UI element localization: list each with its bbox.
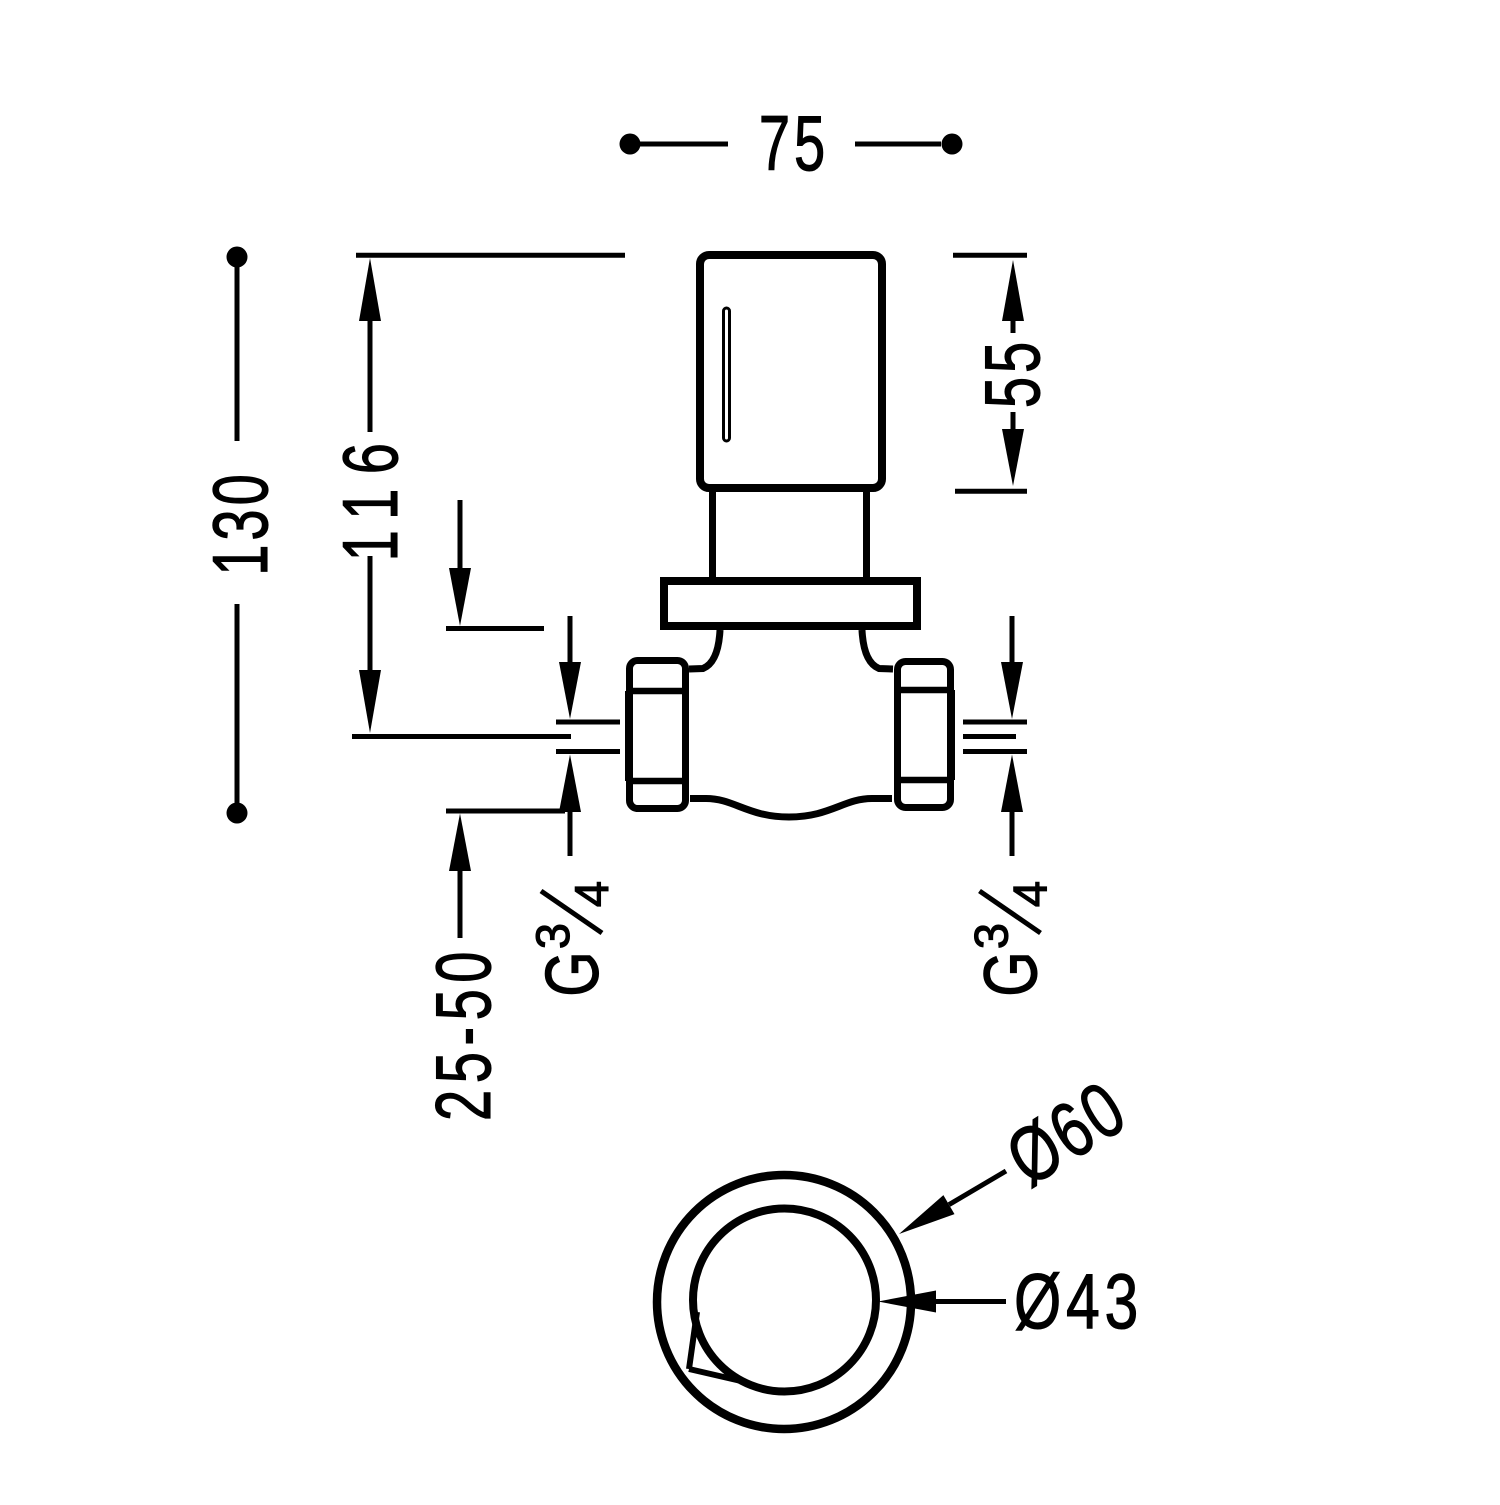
left G3/4 down arrow shaft <box>568 616 573 664</box>
dim 75 left dot <box>620 134 641 155</box>
dim 55 upper shaft stub <box>1011 321 1016 333</box>
svg-text:4: 4 <box>1004 881 1057 907</box>
left G3/4 label fraction slash <box>541 891 602 933</box>
right G3/4 up arrow shaft <box>1010 812 1015 856</box>
dim 25-50 up arrowhead <box>449 814 471 872</box>
right pipe centerline <box>963 734 1016 739</box>
svg-text:55: 55 <box>969 338 1056 408</box>
left G3/4 down arrowhead <box>559 662 581 719</box>
leader arrowhead for D43 <box>878 1291 936 1313</box>
left G3/4 up arrowhead <box>559 755 581 813</box>
left fitting upper chamfer line <box>626 688 689 695</box>
dim 25-50 down arrowhead <box>449 568 471 626</box>
flange rectangle <box>664 581 917 626</box>
right pipe break line lower <box>963 749 1027 754</box>
dim 130 bottom dot <box>227 803 248 824</box>
knob indicator notch bottom line <box>689 1369 741 1381</box>
dim 55 lower shaft stub <box>1011 412 1016 430</box>
right G3/4 up arrowhead <box>1001 755 1023 813</box>
dim 75 line right segment <box>855 142 941 147</box>
left fitting band edge <box>625 691 632 781</box>
dim 130 line lower segment <box>235 604 240 803</box>
left pipe centerline <box>352 734 571 739</box>
dim 130 top dot <box>227 247 248 268</box>
left pipe break line upper <box>556 720 620 725</box>
svg-text:G: G <box>531 951 615 997</box>
svg-text:4: 4 <box>565 881 618 907</box>
knob outer circle <box>657 1175 911 1429</box>
left fitting outline <box>630 661 686 809</box>
dim 116 upper shaft <box>368 318 373 432</box>
dim 55 top extension line <box>953 253 1027 258</box>
left pipe break line lower <box>556 749 620 754</box>
svg-text:116: 116 <box>327 429 414 562</box>
left G3/4 up arrow shaft <box>568 812 573 856</box>
right fitting outline <box>898 662 951 808</box>
dim 130 line upper segment <box>235 267 240 441</box>
dim 75 right dot <box>942 134 963 155</box>
svg-text:3: 3 <box>526 923 579 949</box>
svg-text:G: G <box>970 951 1054 997</box>
stem right line <box>863 492 870 577</box>
dim 55 up arrowhead <box>1002 260 1024 321</box>
right fitting lower chamfer line <box>894 777 954 784</box>
dim 116 lower shaft <box>368 556 373 673</box>
leader arrowhead for D60 <box>899 1195 955 1234</box>
handle slot <box>724 308 730 441</box>
dim 116 up arrowhead <box>359 258 381 321</box>
body upper left curve <box>689 630 720 669</box>
dim 75 line left segment <box>640 142 728 147</box>
leader line for D60 <box>949 1171 1006 1205</box>
dim 25-50 down arrow shaft <box>458 500 463 572</box>
knob inner circle <box>693 1209 876 1392</box>
knob indicator notch left line <box>689 1312 697 1369</box>
right pipe break line upper <box>963 720 1027 725</box>
right G3/4 down arrowhead <box>1001 662 1023 719</box>
right G3/4 label fraction slash <box>980 891 1041 933</box>
body bottom arc <box>690 799 892 818</box>
right fitting upper chamfer line <box>894 687 954 694</box>
dim 25-50 up arrow shaft <box>458 871 463 938</box>
svg-text:75: 75 <box>759 100 829 187</box>
stem left line <box>709 492 716 577</box>
dim 55 bottom extension line <box>955 489 1027 494</box>
leader line for D43 <box>936 1299 1006 1304</box>
svg-text:130: 130 <box>197 470 284 576</box>
dim 55 down arrowhead <box>1002 429 1024 486</box>
dim 116 top extension line <box>356 253 625 258</box>
left fitting lower chamfer line <box>626 778 689 785</box>
dim 116 down arrowhead <box>359 670 381 733</box>
svg-text:Ø43: Ø43 <box>1014 1258 1143 1345</box>
right fitting band edge <box>948 690 955 780</box>
right G3/4 down arrow shaft <box>1010 616 1015 664</box>
svg-text:25-50: 25-50 <box>420 945 507 1121</box>
valve handle outline <box>700 255 882 488</box>
dim 25-50 top reference line <box>446 626 544 631</box>
svg-text:3: 3 <box>965 923 1018 949</box>
body upper right curve <box>862 630 893 669</box>
dim 25-50 bottom reference line <box>446 809 565 814</box>
